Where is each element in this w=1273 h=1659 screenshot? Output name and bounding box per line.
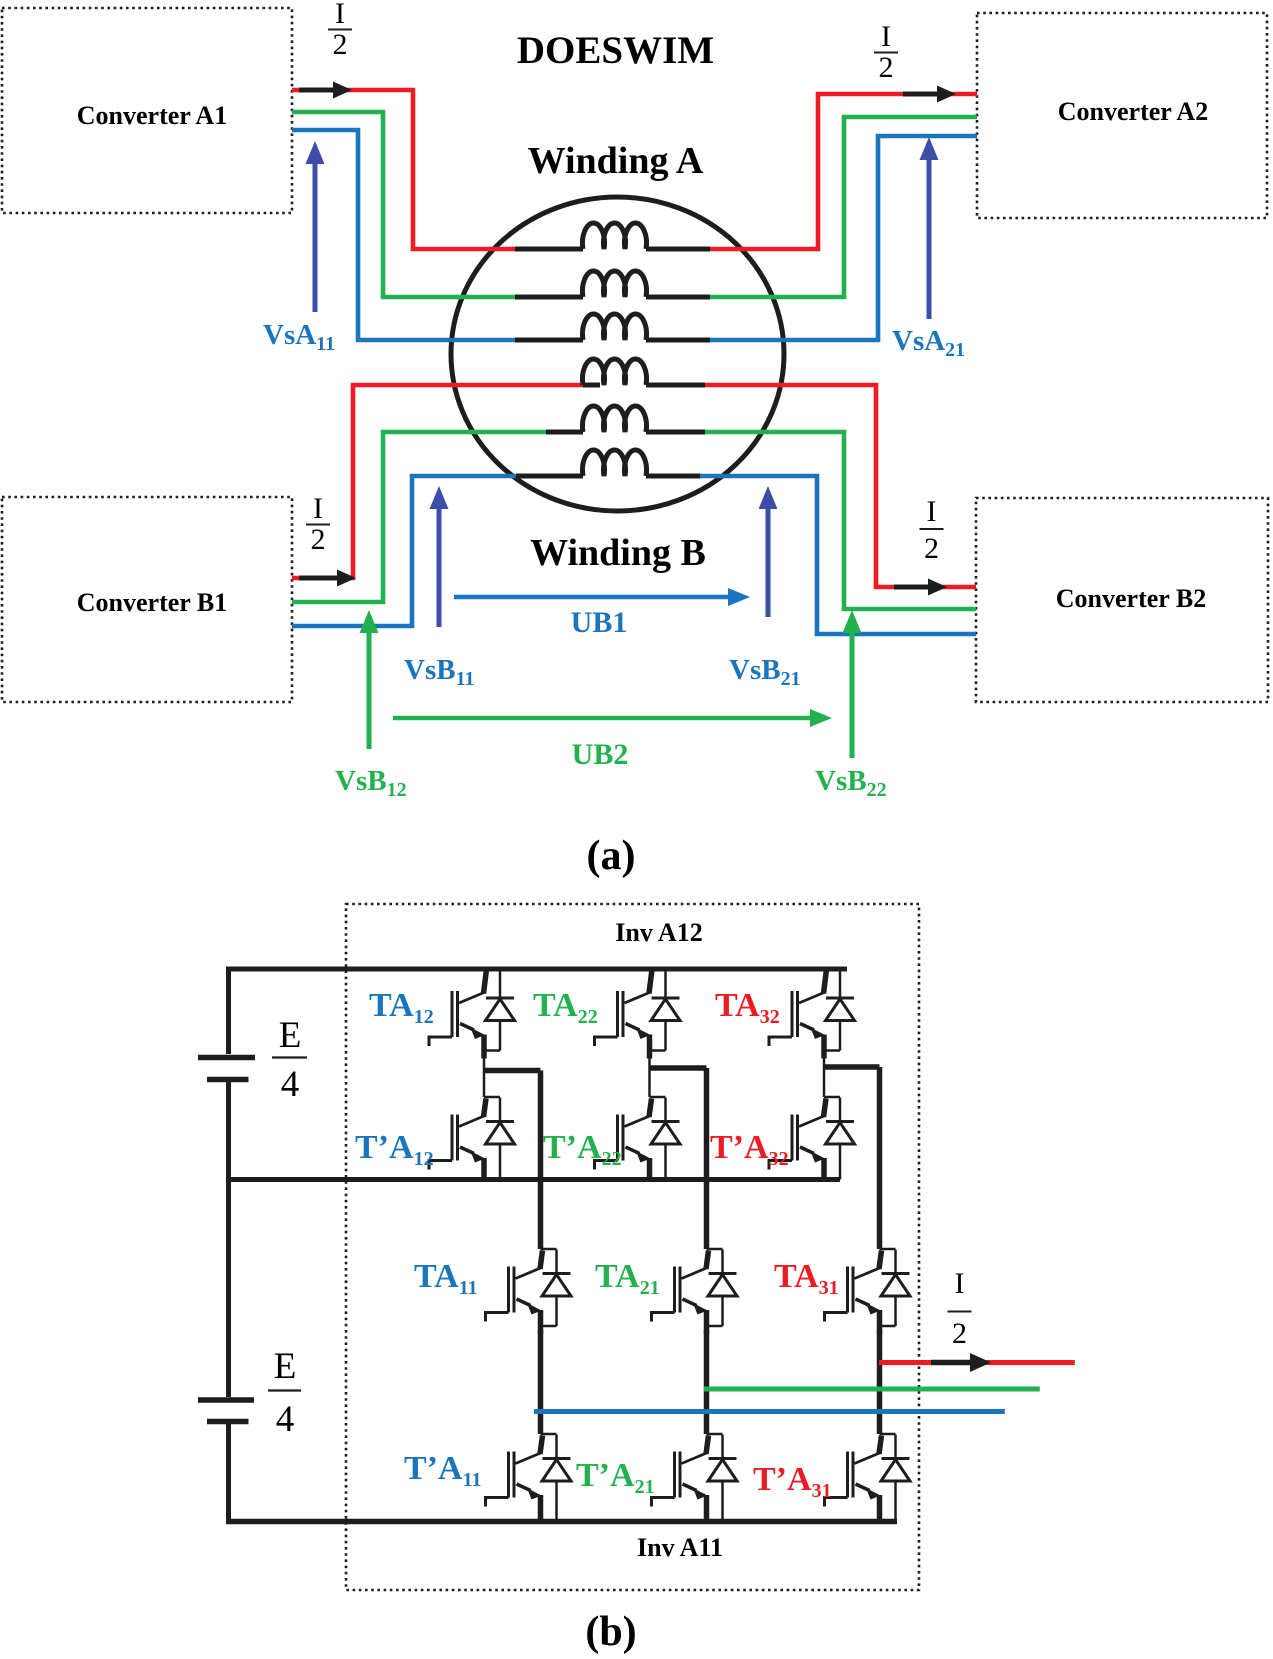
- svg-text:T’A21: T’A21: [576, 1457, 655, 1498]
- capacitor C2: [198, 1400, 254, 1422]
- svg-text:DOESWIM: DOESWIM: [517, 29, 714, 72]
- svg-text:Converter B1: Converter B1: [77, 588, 227, 617]
- svg-text:4: 4: [276, 1399, 295, 1440]
- inductor L3 winding A lead wires: [515, 338, 710, 343]
- inductor L5 winding B lead wires: [546, 430, 705, 435]
- svg-text:I: I: [927, 495, 937, 528]
- transistor TA11 with antiparallel diode: [414, 1249, 571, 1334]
- svg-text:T’A22: T’A22: [543, 1129, 622, 1170]
- machine stator circle DOESWIM: [451, 197, 784, 511]
- DC bus bottom rail: [226, 1519, 897, 1525]
- voltage arrow VsB22: [843, 610, 862, 758]
- svg-text:TA12: TA12: [369, 987, 434, 1028]
- svg-text:2: 2: [879, 51, 894, 84]
- current arrow I/2 into A1 line: [299, 82, 352, 99]
- svg-text:VsB21: VsB21: [729, 654, 801, 690]
- transistor T'A22 with antiparallel diode: [543, 1068, 680, 1182]
- transistor T'A11 with antiparallel diode: [404, 1434, 571, 1522]
- transistor T'A21 with antiparallel diode: [576, 1434, 737, 1522]
- svg-text:I: I: [955, 1267, 965, 1300]
- wire phase leg 2 vertical: [704, 1068, 710, 1434]
- svg-text:2: 2: [311, 523, 326, 556]
- svg-text:E: E: [279, 1015, 302, 1056]
- svg-text:2: 2: [952, 1317, 967, 1350]
- DC link wire lower: [226, 1424, 231, 1522]
- svg-text:VsA21: VsA21: [892, 325, 965, 361]
- svg-text:TA32: TA32: [715, 987, 780, 1028]
- transistor TA31 with antiparallel diode: [774, 1249, 910, 1334]
- voltage arrow VsB11: [430, 486, 449, 627]
- wire green phase B1 to winding (node B1-L5): [292, 432, 546, 602]
- wire blue phase winding to A2 (node L3-A2): [710, 136, 977, 340]
- DC link wire middle: [226, 1082, 231, 1397]
- wire blue phase A1 to winding (node A1-L3): [292, 130, 515, 340]
- DC bus top rail: [226, 967, 847, 972]
- svg-text:TA31: TA31: [774, 1258, 839, 1299]
- wire blue phase B1 to winding (node B1-L6): [292, 476, 516, 626]
- inductor L1 coil: [583, 223, 647, 249]
- wire output green phase 2: [704, 1387, 1040, 1392]
- DC bus mid rail: [226, 1177, 840, 1182]
- wire phase tap top leg 3: [823, 1064, 880, 1070]
- transistor TA12 with antiparallel diode: [369, 969, 515, 1071]
- current arrow I/2 into B2 line: [894, 579, 947, 596]
- wire green phase A1 to winding (node A1-L2): [292, 112, 515, 297]
- svg-text:I: I: [335, 0, 345, 30]
- wire red phase A1 to winding (node A1-L1): [292, 90, 515, 249]
- svg-text:UB2: UB2: [572, 738, 629, 771]
- svg-text:E: E: [274, 1346, 297, 1387]
- svg-text:T’A12: T’A12: [355, 1129, 434, 1170]
- svg-text:Converter A1: Converter A1: [77, 101, 227, 130]
- inductor L2 winding A lead wires: [515, 295, 710, 300]
- current arrow I/2 output: [931, 1353, 991, 1372]
- voltage arrow VsB12: [360, 610, 379, 749]
- svg-text:VsB22: VsB22: [815, 765, 887, 801]
- wire green phase winding to B2 (node L5-B2): [705, 432, 976, 609]
- inductor L6 winding B lead wires: [516, 474, 700, 479]
- svg-text:(b): (b): [585, 1609, 636, 1655]
- svg-text:T’A32: T’A32: [710, 1129, 789, 1170]
- wire phase tap top leg 1: [483, 1068, 541, 1074]
- transistor T'A12 with antiparallel diode: [355, 1071, 515, 1183]
- svg-text:TA22: TA22: [533, 987, 598, 1028]
- inductor L5 coil: [583, 406, 647, 432]
- voltage arrow VsA21: [920, 137, 939, 319]
- inductor L4 coil: [583, 359, 647, 385]
- inverter dotted enclosure box: [346, 904, 919, 1590]
- DC link wire upper: [226, 969, 231, 1054]
- svg-text:Converter A2: Converter A2: [1058, 97, 1208, 126]
- transistor TA32 with antiparallel diode: [715, 969, 855, 1068]
- voltage arrow VsB21: [759, 486, 778, 617]
- svg-text:(a): (a): [587, 833, 636, 879]
- label fraction I/2 at A2: [874, 20, 898, 84]
- wire green phase winding to A2 (node L2-A2): [710, 117, 977, 297]
- label value E/4 upper: [272, 1015, 307, 1105]
- wire phase leg 1 vertical: [538, 1071, 544, 1435]
- svg-text:T’A31: T’A31: [753, 1461, 832, 1502]
- transistor T'A32 with antiparallel diode: [710, 1067, 855, 1182]
- wire blue phase winding to B2 (node L6-B2): [700, 476, 976, 634]
- svg-text:Winding B: Winding B: [530, 532, 706, 574]
- voltage arrow UB2: [393, 709, 832, 727]
- svg-text:TA21: TA21: [595, 1258, 660, 1299]
- svg-text:I: I: [313, 492, 323, 525]
- svg-text:VsA11: VsA11: [263, 319, 335, 355]
- voltage arrow UB1: [454, 588, 750, 606]
- transistor TA22 with antiparallel diode: [533, 969, 680, 1069]
- converter A2 box: [977, 13, 1267, 218]
- wire red phase winding to B2 (node L4-B2): [705, 385, 976, 587]
- label fraction I/2 at B1: [306, 492, 330, 556]
- svg-text:Converter B2: Converter B2: [1056, 584, 1206, 613]
- svg-text:Inv A12: Inv A12: [615, 918, 702, 947]
- svg-text:Inv A11: Inv A11: [637, 1533, 723, 1562]
- label fraction I/2 at B2: [920, 495, 944, 565]
- inductor L4 winding B lead wires: [583, 383, 705, 388]
- svg-text:I: I: [881, 20, 891, 53]
- converter B1 box: [2, 497, 292, 702]
- converter B2 box: [976, 498, 1268, 702]
- wire red phase B1 to winding (node B1-L4): [292, 385, 598, 578]
- current arrow I/2 into A2 line: [903, 86, 956, 103]
- inductor L1 winding A lead wires: [515, 247, 710, 252]
- svg-text:2: 2: [924, 532, 939, 565]
- label fraction I/2 output: [948, 1267, 972, 1350]
- inductor L2 coil: [583, 271, 647, 297]
- converter A1 box: [2, 8, 292, 213]
- wire output blue phase 1: [534, 1409, 1005, 1414]
- svg-text:VsB12: VsB12: [335, 765, 407, 801]
- capacitor C1: [198, 1058, 255, 1080]
- transistor TA21 with antiparallel diode: [595, 1249, 737, 1334]
- voltage arrow VsA11: [306, 141, 325, 312]
- inductor L6 coil: [583, 450, 647, 476]
- svg-text:4: 4: [281, 1064, 300, 1105]
- transistor T'A31 with antiparallel diode: [753, 1434, 910, 1522]
- svg-text:Winding A: Winding A: [528, 140, 704, 182]
- wire phase leg 3 vertical: [877, 1067, 883, 1434]
- svg-text:VsB11: VsB11: [404, 654, 474, 690]
- wire phase tap top leg 2: [649, 1065, 707, 1071]
- svg-text:2: 2: [333, 28, 348, 61]
- label value E/4 lower: [268, 1346, 301, 1440]
- wire red phase winding to A2 (node L1-A2): [710, 94, 977, 249]
- svg-text:UB1: UB1: [571, 606, 628, 639]
- label fraction I/2 at A1: [328, 0, 352, 61]
- svg-text:T’A11: T’A11: [404, 1450, 481, 1491]
- svg-text:TA11: TA11: [414, 1258, 478, 1299]
- current arrow I/2 into B1 line: [299, 570, 356, 587]
- wire output red phase 3: [879, 1360, 1075, 1365]
- inductor L3 coil: [583, 314, 647, 340]
